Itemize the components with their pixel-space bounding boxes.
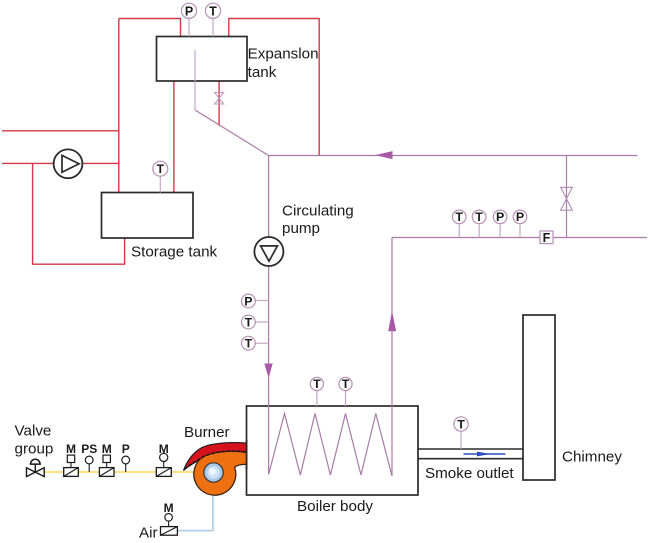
svg-text:Boiler body: Boiler body [297,498,373,515]
svg-text:T: T [313,377,321,391]
instrument T on expansion tank [205,3,220,36]
instrument T right line 1 [452,210,466,237]
wire red expansion-to-storage vertical [173,81,175,193]
wire purple diagonal from expansion tank [195,110,269,156]
svg-text:Valve: Valve [15,423,52,440]
svg-text:P: P [516,210,524,224]
svg-text:F: F [543,231,551,245]
svg-text:T: T [475,210,483,224]
wire red pump suction horizontal [2,162,119,164]
svg-text:Storage tank: Storage tank [131,243,218,260]
wire purple junction drop to boiler [268,156,270,475]
svg-text:T: T [342,377,350,391]
svg-text:T: T [209,4,217,18]
wire purple boiler up-flow riser [391,238,393,475]
svg-text:pump: pump [282,220,320,237]
label Smoke outlet [425,465,514,482]
valve on right drop [561,187,573,210]
wire purple right valve drop [566,156,568,238]
burner red flame hood [184,443,247,471]
svg-text:P: P [185,4,193,18]
svg-text:group: group [15,441,54,458]
burner dashed seam [185,451,247,469]
instrument T on storage tank [153,161,168,192]
solenoid valve M2 [99,442,114,476]
boiler body [247,406,419,495]
air damper motor M [164,501,174,527]
wire air line light blue [178,492,213,531]
wire red drain valve line [218,81,220,125]
wire yellow gas line [44,471,197,473]
solenoid valve M1 [64,442,79,476]
arrow smoke flow [464,452,506,457]
instrument P right line 2 [513,210,527,237]
svg-text:Air: Air [139,525,158,542]
svg-text:T: T [245,337,253,351]
air damper box [161,527,178,536]
pressure switch PS [81,442,97,472]
chimney [523,315,555,480]
wire purple dip tube inside expansion tank [194,50,196,110]
svg-text:P: P [244,294,252,308]
instrument T on boiler 1 [310,377,323,406]
smoke outlet duct [418,449,523,459]
svg-text:Smoke outlet: Smoke outlet [425,465,514,482]
svg-text:PS: PS [81,442,97,456]
boiler left wall over burner [246,440,248,470]
svg-text:T: T [455,210,463,224]
pressure gauge P [122,442,130,472]
instrument T right line 2 [472,210,486,237]
svg-text:tank: tank [248,64,277,81]
label Circulating pump [282,202,354,237]
instrument P on expansion tank [181,3,196,36]
svg-text:M: M [66,442,76,456]
instrument F flow meter box [540,231,553,245]
storage tank T2 [102,193,194,239]
instrument T beside drop line lower [242,336,269,350]
label Air [139,525,158,542]
burner orange volute body [194,451,247,495]
wire purple main top line [269,155,638,157]
wire red top loop right [229,19,319,156]
label Valve group [15,423,54,458]
instrument P beside drop line [242,294,269,308]
valve hand valve of valve group [27,459,45,476]
svg-text:T: T [245,315,253,329]
pump P2 circulating [254,237,283,266]
arrow down on drop line [264,364,272,379]
svg-text:M: M [102,442,112,456]
svg-text:Burner: Burner [184,424,230,441]
valve drain under expansion tank [215,93,224,104]
wire purple zigzag heat exchanger in boiler [269,405,392,476]
label Boiler body [297,498,373,515]
wire red supply top-left horizontal [2,130,119,132]
expansion tank T1 [157,37,248,82]
arrow left on main top line [375,151,393,159]
arrow up on riser [388,311,396,331]
wire red left riser [118,19,120,193]
instrument T on smoke outlet [454,417,468,449]
svg-text:T: T [457,418,465,432]
label Chimney [562,448,622,465]
burner inlet eye [204,463,223,482]
instrument T on boiler 2 [339,377,352,406]
svg-text:Expanslon: Expanslon [248,45,319,62]
wire red bottom loop [33,163,125,264]
instrument T beside drop line upper [242,315,269,329]
wire purple second main line [392,237,647,239]
svg-text:P: P [122,442,130,456]
svg-text:Circulating: Circulating [282,202,354,219]
svg-text:P: P [496,210,504,224]
svg-text:T: T [157,162,165,176]
svg-text:Chimney: Chimney [562,448,622,465]
pump P1 storage circulation [54,149,83,178]
label Burner [184,424,230,441]
label Expansion tank [248,45,319,81]
label Storage tank [131,243,218,260]
instrument P right line 1 [493,210,507,237]
wire red top loop left [119,19,181,37]
motor valve M3 [156,442,171,476]
